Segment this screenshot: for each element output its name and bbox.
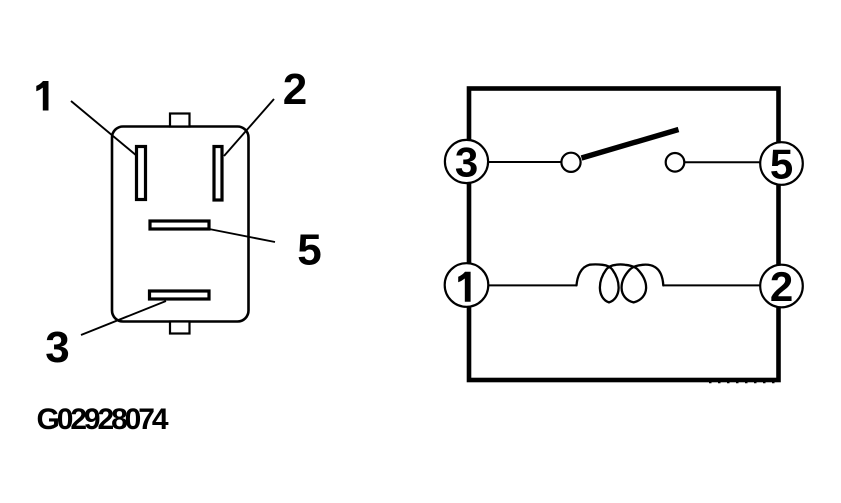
leader line to pin 1 <box>71 101 137 156</box>
pin 2 slot <box>214 147 222 201</box>
leader line to pin 5 <box>209 229 275 242</box>
pin 5 slot <box>150 221 209 229</box>
relay internal circuit box <box>469 89 779 381</box>
switch movable contact circle <box>561 153 580 172</box>
svg-text:G02928074: G02928074 <box>37 403 169 436</box>
svg-text:2: 2 <box>770 263 793 310</box>
svg-text:3: 3 <box>45 323 69 372</box>
terminal 3 circle <box>445 140 488 183</box>
terminal 1 circle <box>445 263 489 307</box>
wire terminal 3 to movable contact <box>467 161 565 163</box>
svg-text:5: 5 <box>770 141 793 188</box>
switch arm (open) <box>582 130 679 159</box>
terminal 5 circle <box>760 142 803 185</box>
label 1 <box>36 81 48 111</box>
svg-text:3: 3 <box>455 139 478 186</box>
leader line to pin 3 <box>81 301 166 335</box>
svg-text:2: 2 <box>283 65 307 114</box>
pin 1 slot <box>137 147 146 200</box>
terminal 1 digit <box>458 272 470 302</box>
wire fixed contact to terminal 5 <box>683 161 781 163</box>
wire coil to terminal 2 <box>664 284 782 286</box>
svg-text:5: 5 <box>297 226 321 275</box>
bottom locating tab <box>170 322 190 334</box>
switch fixed contact circle <box>666 153 685 172</box>
artifact tick marks under box bottom edge <box>709 382 778 384</box>
terminal 2 circle <box>760 265 803 308</box>
relay coil winding <box>577 264 664 302</box>
relay connector body <box>112 127 249 322</box>
leader line to pin 2 <box>224 99 274 156</box>
wire terminal 1 to coil <box>467 284 577 286</box>
pin 3 slot <box>150 291 210 299</box>
top locating tab <box>170 114 190 127</box>
